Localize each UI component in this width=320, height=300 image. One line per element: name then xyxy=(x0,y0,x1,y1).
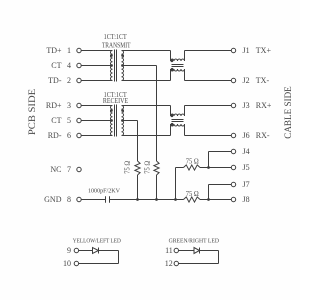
svg-text:4: 4 xyxy=(67,61,71,70)
svg-text:TRANSMIT: TRANSMIT xyxy=(102,42,131,49)
svg-text:3: 3 xyxy=(67,101,71,110)
svg-text:7: 7 xyxy=(67,165,71,174)
svg-text:6: 6 xyxy=(67,131,71,140)
svg-text:J4: J4 xyxy=(243,147,250,156)
svg-text:TX+: TX+ xyxy=(256,46,272,55)
svg-text:RX+: RX+ xyxy=(256,101,272,110)
svg-text:J2: J2 xyxy=(243,76,250,85)
svg-text:NC: NC xyxy=(50,165,61,174)
svg-text:RD+: RD+ xyxy=(46,101,62,110)
svg-text:YELLOW/LEFT LED: YELLOW/LEFT LED xyxy=(73,237,121,244)
svg-text:CT: CT xyxy=(51,116,61,125)
svg-text:GND: GND xyxy=(44,195,62,204)
svg-text:11: 11 xyxy=(165,246,173,255)
svg-text:J8: J8 xyxy=(243,195,250,204)
svg-text:75 Ω: 75 Ω xyxy=(186,191,199,198)
svg-text:TX-: TX- xyxy=(256,76,270,85)
svg-text:TD-: TD- xyxy=(48,76,62,85)
svg-text:RECEIVE: RECEIVE xyxy=(103,98,128,105)
svg-text:TD+: TD+ xyxy=(46,46,62,55)
svg-text:RX-: RX- xyxy=(256,131,270,140)
svg-text:CT: CT xyxy=(51,61,61,70)
svg-text:J7: J7 xyxy=(243,180,250,189)
svg-text:2: 2 xyxy=(67,76,71,85)
svg-text:J6: J6 xyxy=(243,131,250,140)
svg-text:75 Ω: 75 Ω xyxy=(186,158,199,165)
svg-text:J5: J5 xyxy=(243,163,250,172)
svg-text:75 Ω: 75 Ω xyxy=(125,161,132,174)
svg-text:10: 10 xyxy=(63,259,71,268)
svg-text:1000pF/2KV: 1000pF/2KV xyxy=(88,188,121,194)
svg-text:75 Ω: 75 Ω xyxy=(145,161,152,174)
svg-text:PCB SIDE: PCB SIDE xyxy=(28,89,38,135)
svg-text:GREEN/RIGHT LED: GREEN/RIGHT LED xyxy=(169,237,220,244)
svg-text:1: 1 xyxy=(67,46,71,55)
svg-text:J1: J1 xyxy=(243,46,250,55)
svg-text:1CT:1CT: 1CT:1CT xyxy=(104,34,128,41)
svg-text:9: 9 xyxy=(67,246,71,255)
svg-text:12: 12 xyxy=(165,259,173,268)
svg-text:CABLE SIDE: CABLE SIDE xyxy=(284,86,294,139)
svg-text:8: 8 xyxy=(67,195,71,204)
svg-text:RD-: RD- xyxy=(48,131,62,140)
svg-text:5: 5 xyxy=(67,116,71,125)
svg-text:J3: J3 xyxy=(243,101,250,110)
